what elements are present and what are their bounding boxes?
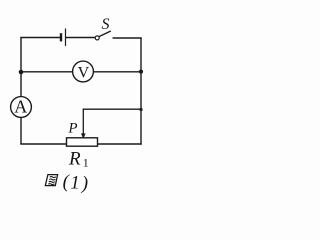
battery cell: short thick negative plate <box>60 33 62 41</box>
caption: character tu (drawn) <box>45 175 57 186</box>
switch S: blade <box>99 31 111 37</box>
svg-text:V: V <box>78 64 90 81</box>
node: slider branch meets right wire <box>139 108 142 111</box>
node: junction dot right <box>139 70 143 74</box>
battery cell: long thin positive plate <box>65 29 67 47</box>
wire: top horizontal left segment to battery <box>20 37 60 39</box>
svg-text:1: 1 <box>70 173 80 193</box>
svg-text:R: R <box>68 149 81 170</box>
switch S: pivot circle <box>95 36 99 40</box>
slider arrowhead P <box>81 133 86 139</box>
svg-text:1: 1 <box>83 156 89 170</box>
node: junction dot left <box>19 70 24 75</box>
wire: right vertical <box>140 38 142 145</box>
wire: top horizontal right of switch <box>113 37 142 39</box>
svg-text:A: A <box>14 96 27 116</box>
rheostat R1: box <box>67 138 98 146</box>
wire: bottom horizontal <box>20 143 141 145</box>
wire: left vertical <box>20 38 22 145</box>
wire: top horizontal between battery and switch <box>66 37 95 39</box>
svg-text:S: S <box>102 16 110 33</box>
wire: slider vertical with arrowhead <box>82 109 84 134</box>
voltmeter U: circle <box>73 61 94 82</box>
wire: voltmeter branch <box>21 71 141 73</box>
wire: slider branch horizontal <box>83 108 141 110</box>
svg-text:): ) <box>81 173 88 193</box>
svg-text:P: P <box>67 121 77 137</box>
ammeter: circle <box>11 97 32 118</box>
